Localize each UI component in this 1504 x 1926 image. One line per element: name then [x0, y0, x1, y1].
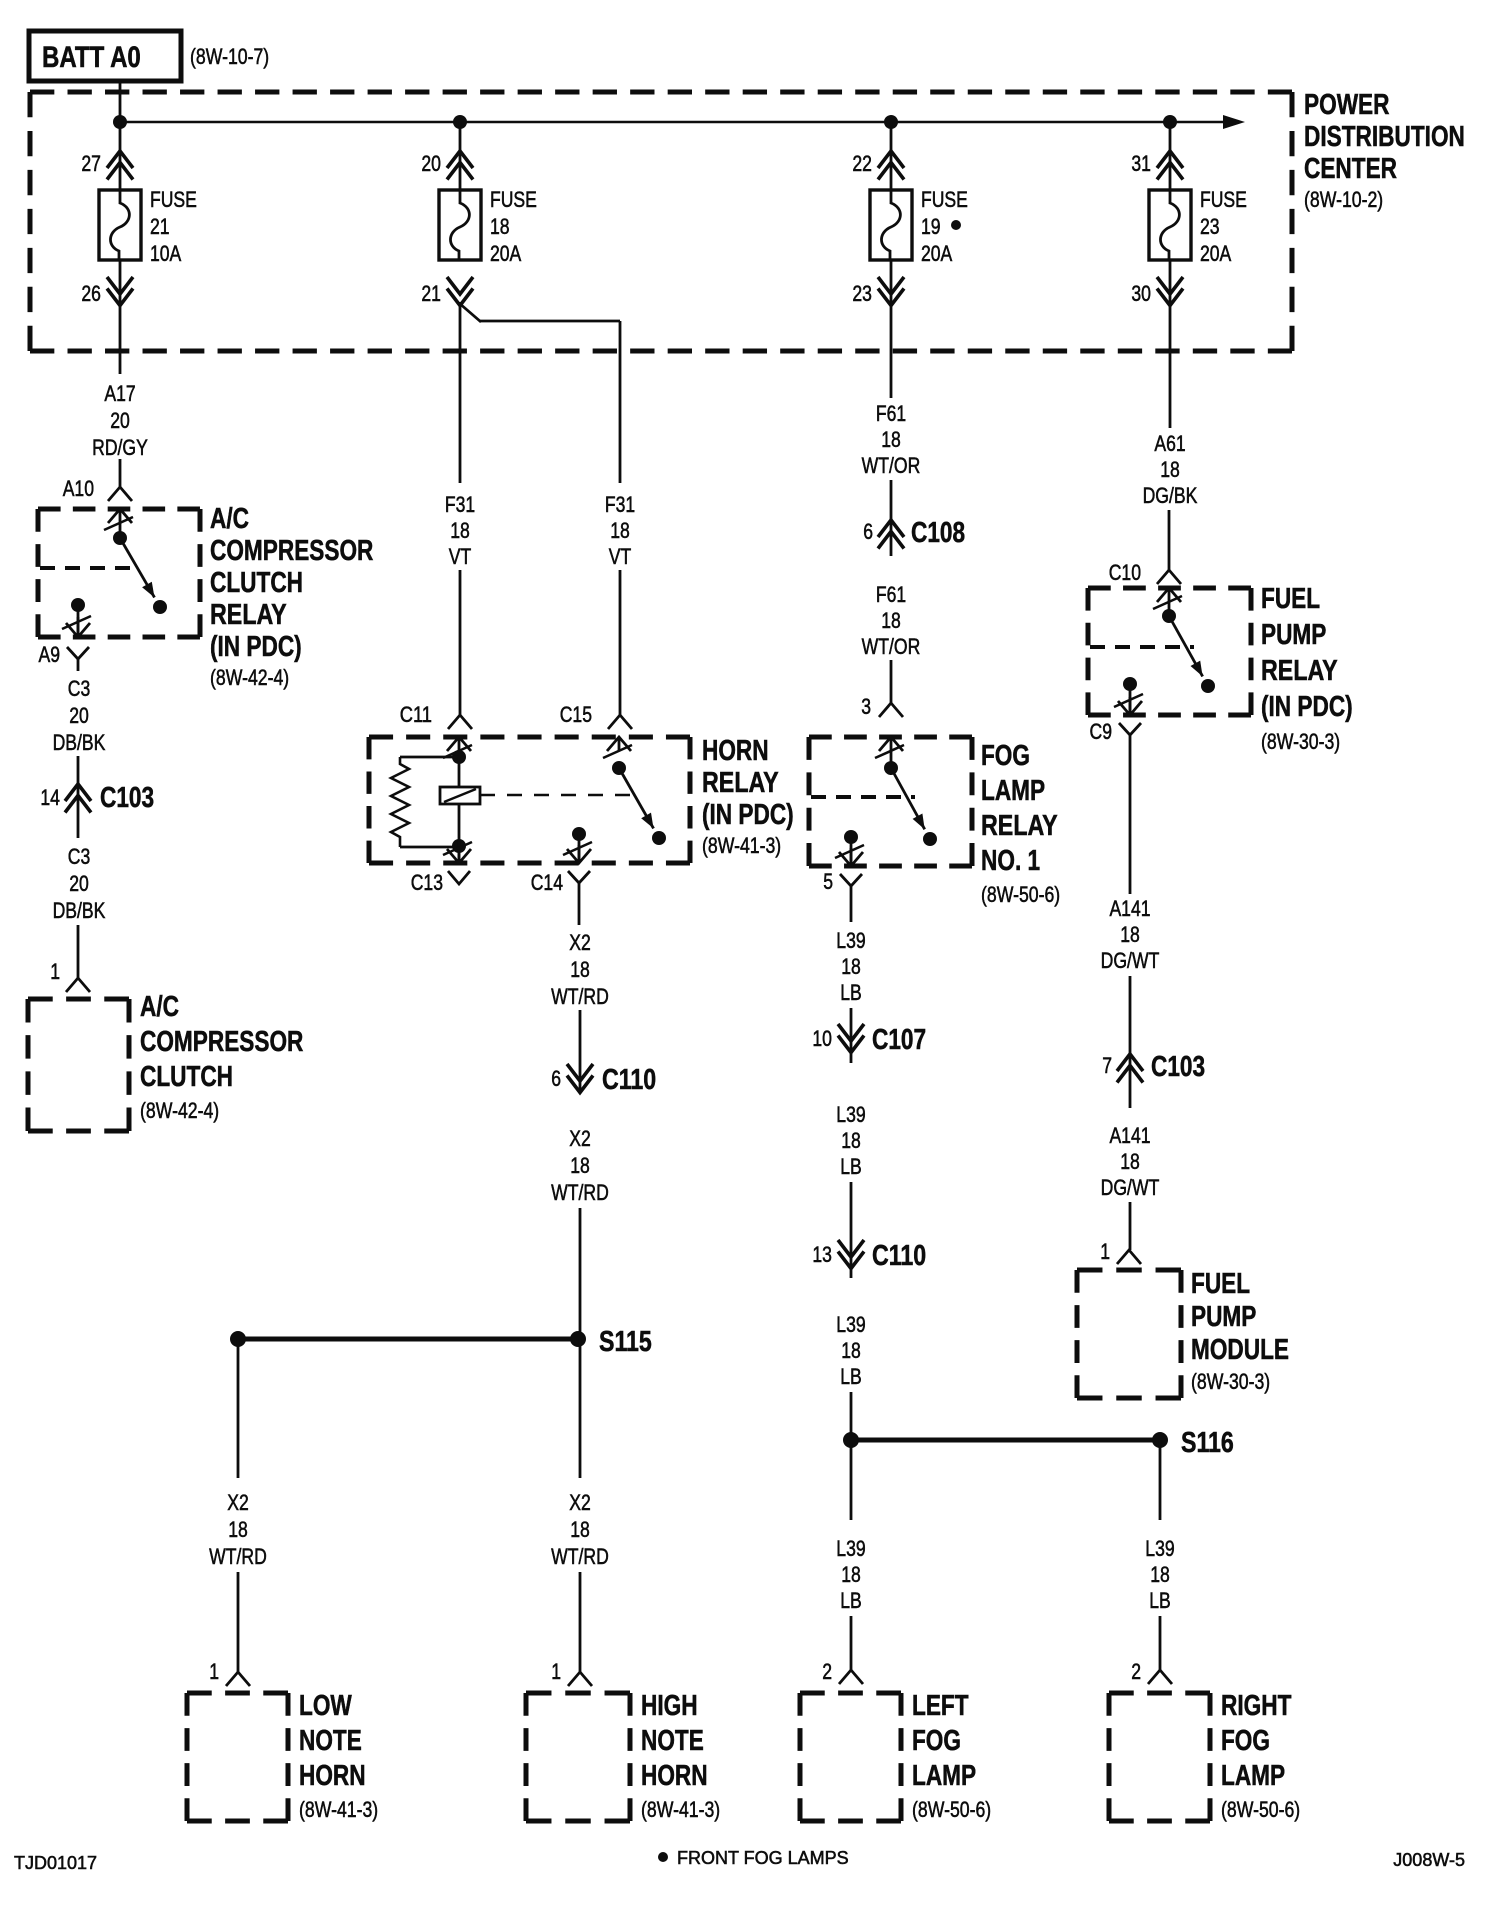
right fog lamp box [1109, 1693, 1210, 1821]
svg-text:18: 18 [570, 1153, 590, 1178]
connector C10 fork [1109, 560, 1181, 585]
svg-text:A17: A17 [104, 381, 135, 406]
pin 20 in-line connector [421, 151, 473, 180]
svg-text:FUEL: FUEL [1191, 1268, 1250, 1300]
svg-text:L39: L39 [836, 1312, 865, 1337]
svg-text:(8W-41-3): (8W-41-3) [702, 833, 781, 858]
svg-text:LAMP: LAMP [912, 1760, 976, 1792]
svg-text:VT: VT [449, 544, 472, 569]
svg-text:RELAY: RELAY [210, 599, 287, 631]
svg-text:FUEL: FUEL [1261, 583, 1320, 615]
svg-text:F61: F61 [876, 401, 906, 426]
svg-text:A9: A9 [39, 642, 61, 667]
wire label L39 18 LB third [836, 1312, 865, 1389]
svg-text:FUSE: FUSE [490, 187, 537, 212]
svg-text:(8W-10-7): (8W-10-7) [190, 44, 269, 69]
wire label L39 18 LB right fog [1145, 1536, 1174, 1613]
svg-text:A/C: A/C [210, 503, 249, 535]
svg-text:30: 30 [1131, 281, 1151, 306]
wire label X2 18 WT/RD upper [551, 930, 609, 1009]
svg-text:6: 6 [551, 1066, 561, 1091]
svg-text:S116: S116 [1181, 1427, 1234, 1459]
svg-text:L39: L39 [836, 1536, 865, 1561]
svg-text:C110: C110 [872, 1240, 926, 1272]
svg-text:RIGHT: RIGHT [1221, 1690, 1292, 1722]
svg-text:21: 21 [421, 281, 441, 306]
svg-text:14: 14 [40, 785, 60, 810]
wire S115 to low note horn label [237, 1339, 240, 1478]
svg-text:C9: C9 [1090, 719, 1113, 744]
A/C relay contact to A9 [62, 598, 91, 637]
svg-text:LOW: LOW [299, 1690, 352, 1722]
wire A61 to fuel pump relay [1168, 510, 1171, 570]
svg-text:(IN PDC): (IN PDC) [210, 631, 302, 663]
fuel pump relay switch blade [1162, 609, 1215, 693]
svg-text:COMPRESSOR: COMPRESSOR [140, 1026, 303, 1058]
svg-text:C13: C13 [411, 870, 443, 895]
svg-text:L39: L39 [836, 928, 865, 953]
svg-text:F31: F31 [445, 492, 475, 517]
low note horn box [187, 1693, 288, 1821]
svg-text:5: 5 [823, 869, 833, 894]
svg-text:HORN: HORN [702, 735, 769, 767]
svg-text:X2: X2 [227, 1490, 249, 1515]
svg-text:WT/OR: WT/OR [862, 634, 921, 659]
svg-text:C110: C110 [602, 1064, 656, 1096]
svg-text:23: 23 [852, 281, 872, 306]
svg-text:18: 18 [841, 1338, 861, 1363]
wire A141 to fuel pump module [1129, 1202, 1132, 1250]
connector C107 pin 10 [812, 1024, 926, 1056]
svg-text:FOG: FOG [1221, 1725, 1270, 1757]
pin 1 fork at fuel pump module [1100, 1239, 1141, 1264]
svg-text:WT/RD: WT/RD [209, 1544, 267, 1569]
svg-text:C107: C107 [872, 1024, 926, 1056]
svg-text:LB: LB [840, 1364, 862, 1389]
svg-text:(8W-10-2): (8W-10-2) [1304, 187, 1383, 212]
pin 26 in-line connector [81, 277, 133, 306]
svg-text:20A: 20A [1200, 241, 1232, 266]
fuel pump relay box [1088, 588, 1251, 715]
connector C9 fork [1090, 719, 1142, 749]
svg-text:PUMP: PUMP [1191, 1301, 1256, 1333]
wire S116 branch down to left fog lamp [850, 1440, 853, 1520]
svg-text:RD/GY: RD/GY [92, 435, 148, 460]
horn relay pin C15 arrow [603, 737, 632, 758]
svg-text:26: 26 [81, 281, 101, 306]
svg-text:(8W-41-3): (8W-41-3) [299, 1797, 378, 1822]
svg-text:20: 20 [110, 408, 130, 433]
fuel pump relay pin C10 arrow [1153, 588, 1182, 616]
fuse 21 10A [99, 187, 197, 266]
wire label A141 18 DG/WT lower [1101, 1123, 1160, 1200]
svg-text:CLUTCH: CLUTCH [210, 567, 303, 599]
fuel pump relay contact to C9 [1114, 677, 1143, 715]
node at S116 branch [843, 1432, 859, 1448]
pin 30 in-line connector [1131, 277, 1183, 306]
wire F61 to C108 [890, 480, 893, 556]
svg-text:(8W-41-3): (8W-41-3) [641, 1797, 720, 1822]
low note horn name [299, 1690, 378, 1822]
svg-text:18: 18 [450, 518, 470, 543]
pin 21 in-line connector [421, 277, 473, 306]
svg-text:18: 18 [610, 518, 630, 543]
wire label A141 18 DG/WT upper [1101, 896, 1160, 973]
wire label A17 20 RD/GY [92, 381, 148, 460]
high note horn box [526, 1693, 630, 1821]
svg-text:C14: C14 [531, 870, 563, 895]
wire pin5 to L39 label [850, 900, 853, 922]
wire bus to fuse 21 [119, 122, 122, 190]
connector C110 pin 13 [812, 1240, 926, 1272]
wire X2 to splice S115 [579, 1208, 582, 1339]
svg-text:MODULE: MODULE [1191, 1334, 1289, 1366]
svg-text:(IN PDC): (IN PDC) [1261, 691, 1353, 723]
svg-text:10A: 10A [150, 241, 182, 266]
svg-text:A10: A10 [63, 476, 94, 501]
svg-text:(8W-50-6): (8W-50-6) [981, 882, 1060, 907]
svg-text:C108: C108 [911, 517, 965, 549]
connector C14 fork [531, 870, 590, 899]
node junction at fuse 19 [884, 115, 898, 129]
wire C3 to C103 [77, 756, 80, 838]
svg-text:1: 1 [209, 1659, 219, 1684]
connector C13 vee [411, 870, 470, 895]
svg-text:POWER: POWER [1304, 89, 1390, 121]
splice S116 [851, 1427, 1234, 1459]
wire C9 to A141 label [1129, 749, 1132, 894]
wire X2 to C110 [579, 1010, 582, 1090]
pin 5 fork below fog lamp relay [823, 869, 862, 900]
wire A17 to A/C relay [119, 459, 122, 487]
svg-text:VT: VT [609, 544, 632, 569]
svg-text:HORN: HORN [641, 1760, 708, 1792]
connector C103 pin 7 [1102, 1051, 1205, 1083]
high note horn name [641, 1690, 720, 1822]
A/C relay pin A10 arrow [104, 509, 133, 538]
horn relay common contact C14 [563, 827, 592, 863]
A/C compressor clutch relay box [38, 509, 200, 637]
fog lamp relay contact to pin 5 [835, 830, 864, 866]
horn relay box [369, 737, 690, 863]
fog lamp relay pin 3 arrow [875, 737, 904, 768]
svg-text:NOTE: NOTE [641, 1725, 704, 1757]
svg-text:DISTRIBUTION: DISTRIBUTION [1304, 121, 1465, 153]
horn relay coil circuit [391, 750, 466, 853]
pin 23 in-line connector [852, 277, 904, 306]
svg-text:CLUTCH: CLUTCH [140, 1061, 233, 1093]
svg-text:C15: C15 [560, 702, 592, 727]
connector C110 pin 6 [551, 1064, 656, 1096]
wire A141 to C103 [1129, 976, 1132, 1108]
svg-text:6: 6 [863, 519, 873, 544]
pin 2 fork at left fog lamp [822, 1659, 863, 1684]
wire label L39 18 LB left fog [836, 1536, 865, 1613]
fuel pump module box [1077, 1270, 1181, 1398]
wire label F31 18 VT right [605, 492, 635, 569]
A/C relay name [210, 503, 373, 690]
wire to high note horn [579, 1572, 582, 1672]
battery feed box BATT A0 [29, 31, 269, 81]
svg-text:31: 31 [1131, 151, 1151, 176]
svg-text:F61: F61 [876, 582, 906, 607]
horn relay coil box [440, 787, 480, 804]
legend front fog lamps [658, 1848, 849, 1868]
pin 3 fork at fog lamp relay [861, 694, 903, 719]
wire label L39 18 LB top [836, 928, 865, 1005]
left fog lamp name [912, 1690, 991, 1822]
svg-text:WT/RD: WT/RD [551, 984, 609, 1009]
svg-text:FUSE: FUSE [921, 187, 968, 212]
svg-text:1: 1 [1100, 1239, 1110, 1264]
A/C relay switch blade [113, 531, 167, 614]
wire to left fog lamp [850, 1616, 853, 1670]
svg-text:18: 18 [228, 1517, 248, 1542]
wire from BATT A0 into PDC [119, 81, 122, 122]
fuse 19 20A [870, 187, 968, 266]
fuse 18 20A [439, 187, 537, 266]
svg-text:L39: L39 [1145, 1536, 1174, 1561]
sheet number J008W-5 [1393, 1850, 1465, 1870]
svg-text:13: 13 [812, 1242, 832, 1267]
wire F61 to fog lamp relay [890, 660, 893, 703]
svg-text:1: 1 [551, 1659, 561, 1684]
svg-text:21: 21 [150, 214, 170, 239]
horn relay pin C11 arrow [443, 737, 472, 758]
wire label X2 18 WT/RD high note [551, 1490, 609, 1569]
svg-text:L39: L39 [836, 1102, 865, 1127]
pin 31 in-line connector [1131, 151, 1183, 180]
svg-text:X2: X2 [569, 1490, 591, 1515]
svg-text:C11: C11 [400, 702, 432, 727]
wire label F61 18 WT/OR upper [862, 401, 921, 478]
pin 1 fork at low note horn [209, 1659, 250, 1686]
svg-text:(8W-42-4): (8W-42-4) [210, 665, 289, 690]
svg-text:7: 7 [1102, 1053, 1112, 1078]
svg-text:PUMP: PUMP [1261, 619, 1326, 651]
wire fuse 19 to F61 label [890, 260, 893, 398]
svg-text:FUSE: FUSE [150, 187, 197, 212]
svg-text:HIGH: HIGH [641, 1690, 698, 1722]
pin 27 in-line connector [81, 151, 133, 180]
svg-text:20: 20 [69, 871, 89, 896]
wire label C3 20 DB/BK upper [53, 676, 106, 755]
fuel pump relay name [1261, 583, 1353, 754]
svg-text:18: 18 [490, 214, 510, 239]
svg-text:A141: A141 [1109, 896, 1150, 921]
svg-text:FUSE: FUSE [1200, 187, 1247, 212]
svg-text:C3: C3 [68, 676, 91, 701]
wire L39 to C110 [850, 1182, 853, 1278]
svg-text:(8W-30-3): (8W-30-3) [1191, 1369, 1270, 1394]
svg-text:18: 18 [881, 608, 901, 633]
wire S116 to right fog lamp label [1159, 1440, 1162, 1520]
svg-text:19: 19 [921, 214, 941, 239]
wire fuse 21 to A17 label [119, 260, 122, 374]
wire to right fog lamp [1159, 1616, 1162, 1670]
fog lamp relay name [981, 740, 1060, 907]
svg-text:RELAY: RELAY [1261, 655, 1338, 687]
svg-text:FRONT FOG LAMPS: FRONT FOG LAMPS [677, 1848, 849, 1868]
svg-text:WT/RD: WT/RD [551, 1180, 609, 1205]
svg-text:18: 18 [1120, 1149, 1140, 1174]
wire C14 to X2 label [578, 899, 581, 925]
A/C compressor clutch name [140, 991, 303, 1123]
svg-text:23: 23 [1200, 214, 1220, 239]
wire label L39 18 LB second [836, 1102, 865, 1179]
pin 22 in-line connector [852, 151, 904, 180]
svg-text:LAMP: LAMP [981, 775, 1045, 807]
svg-text:S115: S115 [599, 1326, 652, 1358]
svg-text:20A: 20A [490, 241, 522, 266]
svg-text:(8W-30-3): (8W-30-3) [1261, 729, 1340, 754]
svg-text:X2: X2 [569, 1126, 591, 1151]
wire S115 to high note horn label [579, 1339, 582, 1478]
svg-text:NO. 1: NO. 1 [981, 845, 1040, 877]
svg-text:F31: F31 [605, 492, 635, 517]
svg-text:DG/WT: DG/WT [1101, 948, 1160, 973]
svg-text:(8W-50-6): (8W-50-6) [1221, 1797, 1300, 1822]
svg-text:20A: 20A [921, 241, 953, 266]
svg-text:DG/BK: DG/BK [1143, 483, 1198, 508]
connector C15 fork [560, 702, 632, 729]
svg-text:(8W-42-4): (8W-42-4) [140, 1098, 219, 1123]
wire label F61 18 WT/OR lower [862, 582, 921, 659]
fuel pump module name [1191, 1268, 1289, 1394]
svg-text:WT/OR: WT/OR [862, 453, 921, 478]
svg-text:(8W-50-6): (8W-50-6) [912, 1797, 991, 1822]
svg-text:FOG: FOG [981, 740, 1030, 772]
svg-text:A/C: A/C [140, 991, 179, 1023]
svg-text:LAMP: LAMP [1221, 1760, 1285, 1792]
svg-text:A141: A141 [1109, 1123, 1150, 1148]
svg-text:C103: C103 [100, 782, 154, 814]
svg-text:C3: C3 [68, 844, 91, 869]
left fog lamp box [800, 1693, 901, 1821]
svg-text:2: 2 [1131, 1659, 1141, 1684]
connector C103 pin 14 [40, 782, 154, 814]
svg-text:HORN: HORN [299, 1760, 366, 1792]
svg-text:18: 18 [570, 1517, 590, 1542]
svg-text:10: 10 [812, 1026, 832, 1051]
svg-text:TJD01017: TJD01017 [14, 1853, 97, 1873]
wire L39 to S116 tee [850, 1392, 853, 1448]
svg-text:3: 3 [861, 694, 871, 719]
svg-text:2: 2 [822, 1659, 832, 1684]
svg-text:18: 18 [881, 427, 901, 452]
right fog lamp name [1221, 1690, 1300, 1822]
pin 1 fork at high note horn [551, 1659, 592, 1686]
svg-text:20: 20 [69, 703, 89, 728]
connector C108 pin 6 [863, 517, 965, 549]
A/C compressor clutch box [28, 999, 129, 1131]
svg-text:LB: LB [840, 1154, 862, 1179]
node junction at fuse 21 [113, 115, 127, 129]
svg-text:(IN PDC): (IN PDC) [702, 799, 794, 831]
svg-text:18: 18 [570, 957, 590, 982]
wire label C3 20 DB/BK lower [53, 844, 106, 923]
svg-text:X2: X2 [569, 930, 591, 955]
horn relay name [702, 735, 794, 858]
svg-text:NOTE: NOTE [299, 1725, 362, 1757]
pin 2 fork at right fog lamp [1131, 1659, 1172, 1684]
branch wire to second F31 [459, 303, 620, 483]
horn relay coil-to-armature dashed link [480, 794, 634, 797]
svg-text:27: 27 [81, 151, 101, 176]
connector C11 fork [400, 702, 472, 729]
wire bus to fuse 23 [1169, 122, 1172, 190]
node junction at fuse 23 [1163, 115, 1177, 129]
wire label F31 18 VT left [445, 492, 475, 569]
svg-text:18: 18 [1120, 922, 1140, 947]
svg-text:18: 18 [1160, 457, 1180, 482]
wire bus to fuse 19 [890, 122, 893, 190]
svg-text:C103: C103 [1151, 1051, 1205, 1083]
wire C3 to A/C compressor clutch [77, 925, 80, 978]
wire L39 to C107 [850, 1008, 853, 1063]
svg-text:22: 22 [852, 151, 872, 176]
svg-text:BATT A0: BATT A0 [42, 41, 141, 74]
power distribution center box (PDC) [30, 92, 1292, 351]
horn relay switch blade [612, 761, 666, 845]
wire label X2 18 WT/RD middle [551, 1126, 609, 1205]
svg-text:LB: LB [840, 980, 862, 1005]
svg-text:18: 18 [1150, 1562, 1170, 1587]
svg-text:20: 20 [421, 151, 441, 176]
svg-text:J008W-5: J008W-5 [1393, 1850, 1465, 1870]
svg-text:DB/BK: DB/BK [53, 730, 106, 755]
power distribution center title [1304, 89, 1465, 212]
svg-text:18: 18 [841, 1128, 861, 1153]
bus wire B+ feed [120, 115, 1245, 129]
wire F31 left to horn relay [459, 570, 462, 715]
wire label A61 18 DG/BK [1143, 431, 1198, 508]
connector A9 fork [39, 642, 90, 671]
svg-text:CENTER: CENTER [1304, 153, 1397, 185]
fog lamp relay no.1 box [809, 737, 972, 866]
svg-text:LB: LB [1149, 1588, 1171, 1613]
svg-text:18: 18 [841, 954, 861, 979]
svg-text:COMPRESSOR: COMPRESSOR [210, 535, 373, 567]
wire fuse 18 down to F31 label [459, 302, 462, 483]
node junction at fuse 18 [453, 115, 467, 129]
svg-text:C10: C10 [1109, 560, 1141, 585]
wire F31 right to horn relay [619, 570, 622, 715]
svg-text:WT/RD: WT/RD [551, 1544, 609, 1569]
svg-text:1: 1 [50, 959, 60, 984]
svg-text:A61: A61 [1154, 431, 1185, 456]
drawing number TJD01017 [14, 1853, 97, 1873]
svg-text:FOG: FOG [912, 1725, 961, 1757]
svg-text:LEFT: LEFT [912, 1690, 969, 1722]
svg-text:18: 18 [841, 1562, 861, 1587]
svg-text:LB: LB [840, 1588, 862, 1613]
pin 1 fork at A/C compressor clutch [50, 959, 90, 992]
wire fuse 23 to A61 label [1169, 260, 1172, 428]
wire bus to fuse 18 [459, 122, 462, 190]
fog lamp relay switch blade [884, 761, 937, 846]
svg-text:DB/BK: DB/BK [53, 898, 106, 923]
wire label X2 18 WT/RD low note [209, 1490, 267, 1569]
wire to low note horn [237, 1572, 240, 1672]
svg-text:RELAY: RELAY [981, 810, 1058, 842]
fuse 23 20A [1149, 187, 1247, 266]
svg-text:RELAY: RELAY [702, 767, 779, 799]
splice S115 [230, 1326, 652, 1358]
horn relay pin C13 arrow [443, 842, 472, 863]
connector A10 fork [63, 476, 132, 501]
svg-text:DG/WT: DG/WT [1101, 1175, 1160, 1200]
